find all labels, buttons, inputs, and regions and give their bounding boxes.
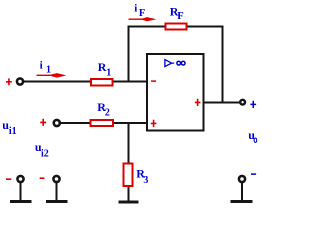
op-amp non-inverting input plus sign (151, 120, 157, 127)
wire: feedback right vertical down to output wire (222, 27, 224, 103)
svg-text:i1: i1 (9, 126, 17, 137)
label iF (134, 2, 145, 19)
input terminal 2 plus sign (40, 119, 46, 126)
ground 1 stub wire (20, 183, 22, 202)
output ground stub wire (241, 183, 243, 202)
resistor R2 body (91, 120, 114, 126)
op-amp U1 rectangle body (147, 54, 204, 131)
label R2 (97, 100, 110, 119)
ground 2 bar (46, 200, 68, 203)
input terminal 1 circle (17, 78, 23, 84)
ground terminal 1 circle (17, 176, 23, 182)
op-amp inverting input minus sign (151, 80, 156, 82)
wire: output wire from op-amp to output terminal (204, 102, 240, 104)
ground terminal 1 minus sign (6, 178, 11, 180)
ground 1 bar (10, 200, 32, 203)
resistor RF body (166, 24, 187, 30)
output ground bar (231, 200, 253, 203)
resistor R3 body (124, 164, 133, 187)
op-amp gain symbol: infinity (177, 61, 185, 65)
label RF (170, 4, 184, 22)
label uo (248, 128, 256, 142)
input terminal 2 circle (54, 120, 60, 126)
wire: non-inverting input rail from input terminal 2 through R2 to op-amp (59, 122, 147, 124)
wire: feedback tap vertical from inverting rail up to feedback wire (128, 26, 130, 83)
current arrow iF (129, 17, 157, 21)
ground terminal 2 minus sign (40, 177, 45, 179)
svg-text:2: 2 (105, 108, 110, 119)
label ui1 (2, 118, 16, 137)
svg-text:1: 1 (106, 68, 111, 79)
wire: top feedback wire through RF (128, 26, 224, 28)
ground terminal 2 circle (53, 176, 59, 182)
svg-text:i: i (134, 2, 137, 14)
ground bar under R3 (119, 201, 139, 204)
label R3 (136, 166, 148, 186)
input terminal 1 plus sign (6, 78, 12, 85)
svg-text:i: i (40, 59, 43, 71)
label ui2 (35, 140, 49, 159)
svg-text:F: F (139, 8, 145, 19)
resistor R1 body (91, 79, 113, 86)
current arrow i1 (37, 73, 67, 78)
svg-text:3: 3 (143, 175, 148, 186)
output ground minus sign (251, 173, 256, 175)
wire: R3 branch from non-inverting rail down to ground (128, 123, 130, 201)
svg-text:F: F (177, 11, 183, 22)
op-amp gain symbol: triangle (165, 60, 174, 67)
svg-text:1: 1 (46, 65, 51, 76)
output terminal circle (240, 100, 245, 105)
svg-text:i2: i2 (41, 148, 49, 159)
output blue plus sign (250, 101, 256, 108)
ground 2 stub wire (56, 183, 58, 202)
label R1 (98, 60, 112, 79)
op-amp output plus sign (195, 99, 201, 106)
wire: inverting input rail from input terminal 1 through R1 to op-amp (23, 81, 147, 83)
output ground terminal circle (239, 176, 245, 182)
label i1 (40, 59, 51, 75)
